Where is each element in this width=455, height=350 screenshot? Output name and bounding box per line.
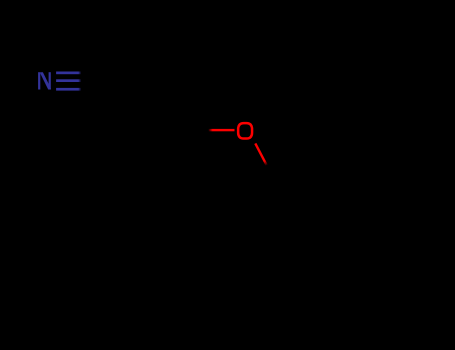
atom label N1 (nitrile nitrogen), drawn as shapes xyxy=(38,72,51,89)
bond C4-O5 (visible red half, horizontal into O) xyxy=(208,129,234,131)
triple bond N1#C2, line 1 of 3 (visible blue half) xyxy=(56,72,81,75)
triple bond N1#C2, line 2 of 3 (visible blue half) xyxy=(56,79,81,82)
triple bond N1#C2, line 3 of 3 (visible blue half) xyxy=(56,88,81,91)
atom label O5 (ether oxygen), drawn as ring shape xyxy=(237,122,253,140)
bond O5-C6 (visible red half, diagonal down-right) xyxy=(255,143,266,165)
